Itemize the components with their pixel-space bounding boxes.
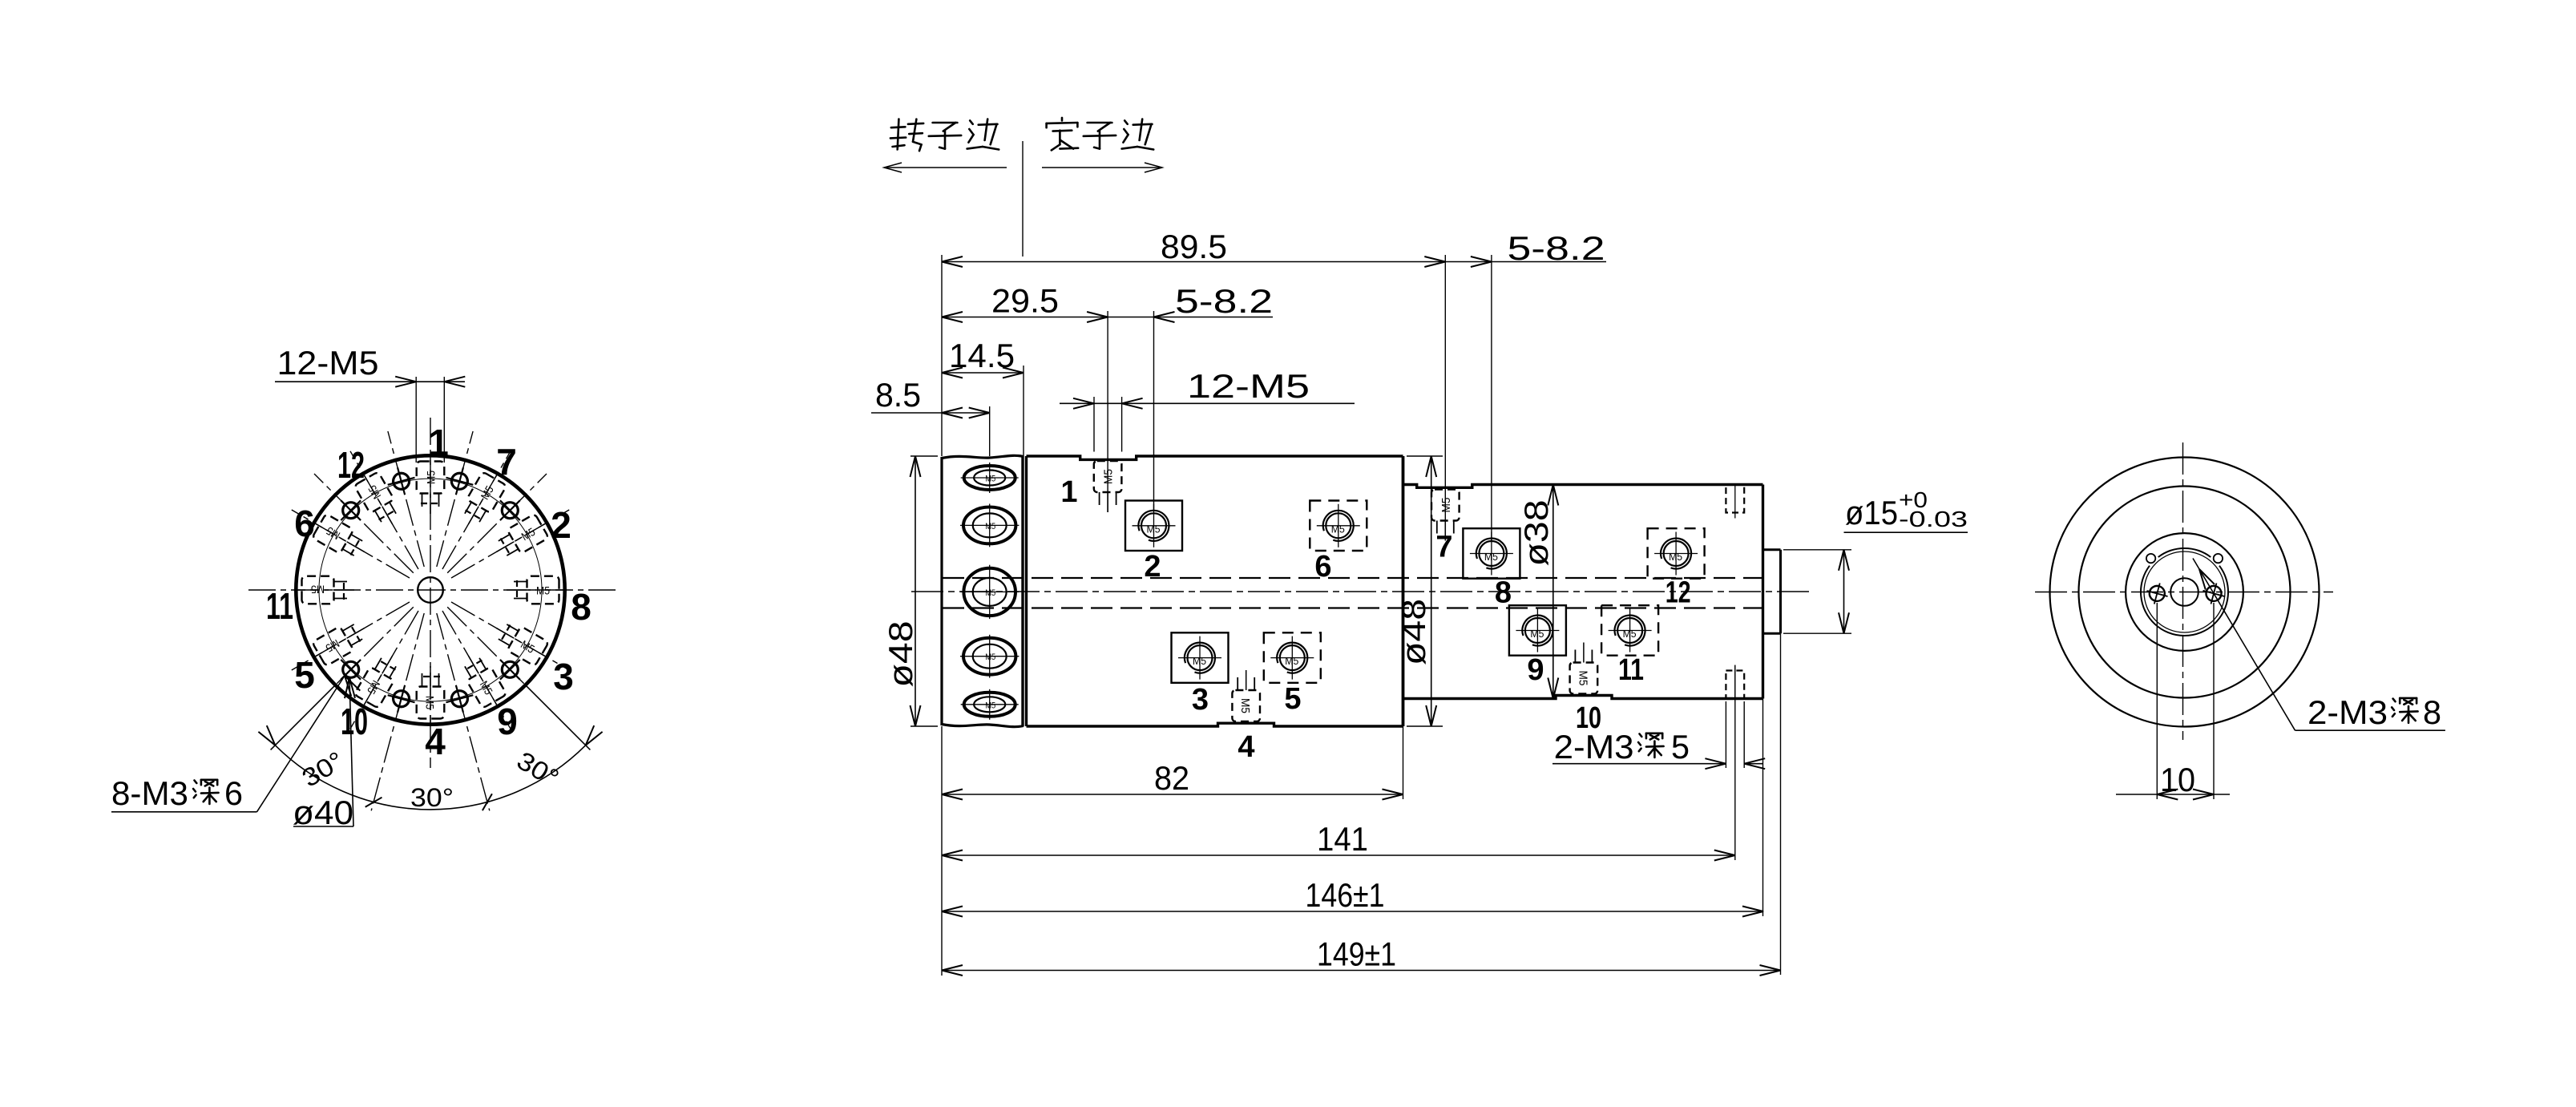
- svg-text:M5: M5: [536, 584, 550, 597]
- svg-text:2: 2: [551, 504, 571, 546]
- svg-text:82: 82: [1154, 759, 1189, 797]
- svg-text:2: 2: [1144, 550, 1161, 584]
- screw axis 315 deg: [447, 607, 524, 684]
- stator side arrow: [1042, 167, 1162, 168]
- flange port ellipse y=878.8: [964, 693, 1015, 717]
- svg-text:6: 6: [224, 774, 243, 812]
- svg-text:2-M3: 2-M3: [1554, 728, 1634, 766]
- svg-text:M5: M5: [1623, 628, 1637, 640]
- svg-text:5: 5: [1671, 728, 1690, 766]
- port 11 face port (side view): [1601, 605, 1658, 656]
- svg-text:5: 5: [1284, 682, 1301, 716]
- screw axis 45 deg: [447, 474, 547, 573]
- svg-text:M5: M5: [1331, 523, 1345, 535]
- flange port ellipse y=596.0: [964, 466, 1015, 490]
- extension lines (top dims): [941, 255, 943, 456]
- extension lines (bottom dims): [941, 726, 943, 976]
- svg-text:ø48: ø48: [1395, 599, 1432, 665]
- svg-text:M5: M5: [1576, 671, 1589, 686]
- svg-text:11: 11: [1618, 653, 1644, 687]
- port 4 bottom tap: [1232, 690, 1260, 721]
- svg-text:8: 8: [571, 586, 592, 628]
- svg-text:M5: M5: [985, 652, 995, 662]
- svg-text:8: 8: [2423, 693, 2441, 731]
- svg-text:5-8.2: 5-8.2: [1175, 282, 1273, 320]
- centerline radius 60 deg: [442, 451, 511, 569]
- stator body outline: [1403, 485, 1763, 488]
- svg-text:5: 5: [294, 654, 315, 696]
- centerline radius 330 deg: [451, 602, 569, 670]
- dim phi48 left: [910, 455, 938, 457]
- port 7 top tap: [1431, 490, 1460, 521]
- right view horizontal centerline: [2035, 592, 2333, 593]
- rotor flange outline: [942, 455, 1024, 458]
- svg-text:M5: M5: [424, 696, 437, 709]
- inner chamfer circle: [2144, 551, 2225, 632]
- svg-text:7: 7: [496, 441, 517, 483]
- center hole: [2170, 578, 2198, 606]
- svg-text:M5: M5: [985, 522, 995, 531]
- right view vertical centerline: [2182, 442, 2184, 740]
- screw axis 105 deg: [388, 431, 424, 567]
- svg-text:8.5: 8.5: [875, 376, 921, 414]
- relief hole right: [2214, 554, 2223, 563]
- svg-text:11: 11: [266, 585, 293, 627]
- svg-text:12: 12: [337, 444, 365, 486]
- port 2 face port (side view): [1125, 501, 1182, 551]
- port 4 radial M5 tap (left view): [417, 666, 445, 725]
- flange port ellipse y=738.4: [963, 568, 1015, 616]
- M3 screw at 255 deg: [384, 681, 418, 716]
- dim 10 (right view): [2156, 603, 2158, 799]
- svg-text:M5: M5: [311, 584, 325, 596]
- svg-text:8: 8: [1495, 576, 1512, 610]
- M3 screw at 135 deg: [331, 491, 370, 530]
- port 12 radial M5 tap (left view): [351, 467, 404, 531]
- port 6 radial M5 tap (left view): [307, 511, 372, 564]
- outer circle 48: [2050, 458, 2320, 727]
- centerline radius 210 deg: [292, 602, 410, 670]
- svg-text:M5: M5: [985, 475, 995, 484]
- angular dim tick -105: [365, 794, 382, 810]
- svg-text:1: 1: [1060, 475, 1077, 509]
- centerline horizontal (ports 8-11): [248, 589, 618, 591]
- svg-text:149±1: 149±1: [1317, 935, 1396, 973]
- angular dim radial line 225 deg: [271, 685, 336, 750]
- centerline radius 30 deg: [451, 510, 569, 578]
- M3 screw at 315 deg: [491, 650, 530, 689]
- M3 screw left: [2144, 580, 2170, 607]
- svg-text:ø48: ø48: [882, 621, 919, 688]
- svg-text:89.5: 89.5: [1161, 228, 1227, 265]
- shaft circle 15 with relief holes: [2158, 548, 2211, 557]
- svg-text:10: 10: [341, 701, 368, 742]
- angular dim tick -75: [479, 794, 496, 810]
- svg-text:9: 9: [1527, 653, 1544, 687]
- center hole: [418, 577, 443, 603]
- label stator side: [1061, 118, 1064, 121]
- svg-text:M5: M5: [1285, 655, 1298, 667]
- screw axis 225 deg: [337, 607, 414, 684]
- bolt circle 40: [319, 479, 542, 701]
- svg-text:4: 4: [425, 721, 446, 762]
- angular dim radial line 315 deg: [526, 685, 591, 750]
- hidden bore line upper: [943, 577, 1763, 579]
- port 11 radial M5 tap (left view): [296, 576, 354, 604]
- svg-text:6: 6: [294, 503, 315, 544]
- port 6 face port (side view): [1310, 501, 1367, 551]
- center axis line: [911, 591, 1814, 592]
- centerline radius 240 deg: [350, 611, 418, 729]
- flange port ellipse y=818.7: [963, 638, 1015, 675]
- svg-text:M5: M5: [1530, 628, 1544, 640]
- port 9 face port (side view): [1509, 605, 1566, 656]
- centerline radius 300 deg: [442, 611, 511, 729]
- svg-text:6: 6: [1314, 550, 1331, 584]
- svg-text:4: 4: [1238, 730, 1254, 764]
- rotor side arrow: [884, 167, 1007, 168]
- main body outline: [1027, 456, 1403, 459]
- svg-text:M5: M5: [985, 588, 995, 598]
- svg-text:12-M5: 12-M5: [1187, 367, 1310, 405]
- circle 38: [2079, 487, 2291, 698]
- svg-text:30°: 30°: [410, 783, 454, 812]
- flange port ellipse y=655.4: [963, 507, 1015, 544]
- port 1 top tap: [1094, 461, 1122, 492]
- port 3 face port (side view): [1172, 632, 1229, 683]
- port 7 radial M5 tap (left view): [457, 467, 510, 531]
- right view: stator end face: [2035, 442, 2445, 800]
- screw axis 285 deg: [437, 613, 490, 810]
- svg-text:1: 1: [428, 422, 449, 463]
- port 5 face port (side view): [1264, 632, 1321, 683]
- svg-text:M5: M5: [1669, 551, 1682, 563]
- divider line: [1022, 141, 1024, 257]
- svg-text:M5: M5: [1193, 655, 1206, 667]
- svg-text:3: 3: [1192, 683, 1209, 717]
- M3 screw at 75 deg: [442, 464, 477, 499]
- M3 screw at 285 deg: [442, 681, 477, 716]
- port 5 radial M5 tap (left view): [307, 616, 372, 669]
- screw axis 75 deg: [437, 431, 473, 567]
- port 8 face port (side view): [1463, 528, 1520, 579]
- svg-text:8-M3: 8-M3: [111, 774, 188, 812]
- dim phi38: [1552, 485, 1554, 699]
- svg-text:ø40: ø40: [293, 794, 353, 831]
- svg-text:2-M3: 2-M3: [2307, 693, 2388, 731]
- svg-text:29.5: 29.5: [991, 282, 1059, 320]
- svg-text:141: 141: [1317, 820, 1368, 858]
- port 8 radial M5 tap (left view): [507, 576, 565, 604]
- hidden bore line lower: [943, 607, 1763, 608]
- M3 screw at 105 deg: [384, 464, 418, 499]
- port 3 radial M5 tap (left view): [490, 616, 555, 669]
- svg-text:M5: M5: [1238, 698, 1252, 713]
- centerline radius 120 deg: [350, 451, 418, 569]
- svg-text:ø38: ø38: [1517, 500, 1555, 567]
- dim phi15: [1783, 549, 1851, 551]
- relief hole left: [2146, 554, 2155, 563]
- svg-text:146±1: 146±1: [1306, 876, 1385, 914]
- boss circle: [2126, 533, 2243, 651]
- screw axis 135 deg: [314, 474, 414, 573]
- svg-text:3: 3: [553, 656, 574, 697]
- label rotor side: [898, 119, 899, 150]
- svg-text:-0.03: -0.03: [1899, 507, 1968, 531]
- screw axis 255 deg: [371, 613, 424, 810]
- svg-text:12: 12: [1666, 576, 1691, 610]
- port 10 bottom tap: [1570, 663, 1598, 694]
- svg-text:M5: M5: [1102, 469, 1116, 484]
- left view: rotor end face: [111, 344, 618, 831]
- svg-text:M5: M5: [1147, 523, 1161, 535]
- M3 screw at 45 deg: [491, 491, 530, 530]
- centerline vertical (ports 1-4): [430, 418, 431, 768]
- output shaft: [1763, 548, 1781, 551]
- svg-text:M5: M5: [985, 701, 995, 710]
- svg-text:9: 9: [497, 701, 518, 742]
- svg-text:M5: M5: [425, 471, 438, 484]
- port 10 radial M5 tap (left view): [351, 649, 404, 714]
- centerline radius 150 deg: [292, 510, 410, 578]
- port 9 radial M5 tap (left view): [457, 649, 510, 714]
- svg-text:ø15: ø15: [1845, 494, 1898, 531]
- M3 screw right: [2200, 580, 2227, 607]
- 2x M3 deep5 holes: [1726, 485, 1744, 513]
- svg-text:12-M5: 12-M5: [277, 344, 379, 382]
- side section view: [871, 118, 1968, 976]
- M3 screw at 225 deg: [331, 650, 370, 689]
- left view outer circle (flange OD 48): [296, 455, 564, 724]
- svg-text:5-8.2: 5-8.2: [1508, 229, 1605, 267]
- port 2 radial M5 tap (left view): [490, 511, 555, 564]
- dim phi48 right: [1407, 455, 1443, 457]
- port 1 radial M5 tap (left view): [417, 455, 445, 514]
- svg-text:M5: M5: [1484, 551, 1498, 563]
- svg-text:M5: M5: [1439, 498, 1453, 513]
- port 12 face port (side view): [1648, 528, 1705, 579]
- 30 deg angular dimensions arc: [275, 745, 585, 810]
- svg-text:7: 7: [1435, 531, 1452, 564]
